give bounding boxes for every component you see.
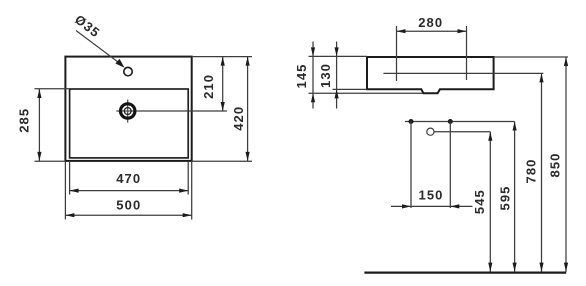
svg-text:470: 470 [116, 171, 141, 186]
extension line 285 top [35, 88, 70, 90]
dimension 285 [37, 89, 41, 161]
junction dot left [409, 119, 414, 124]
svg-text:280: 280 [418, 15, 443, 30]
dimension 850 [564, 57, 568, 272]
dimension 210 [221, 57, 225, 111]
extension lines 470 [70, 162, 189, 195]
dimension 470 [70, 189, 189, 193]
svg-text:285: 285 [16, 108, 31, 133]
dimension 150 [391, 204, 473, 208]
drain inner circle [124, 108, 131, 115]
junction dot right [448, 119, 453, 124]
plan view: outer rect 500x420 [65, 57, 191, 161]
svg-text:150: 150 [419, 188, 444, 203]
extension line top right [192, 56, 252, 58]
wall hole circle [427, 128, 434, 135]
fixing vertical left [410, 122, 412, 209]
svg-text:780: 780 [523, 159, 538, 184]
svg-text:850: 850 [548, 153, 563, 178]
side view rim line [384, 72, 544, 74]
faucet hole [124, 67, 132, 75]
drain crosshair [116, 100, 139, 123]
centerline from drain to 210 dim [139, 110, 227, 112]
level line 595 [405, 121, 515, 123]
dimension 780 [539, 73, 543, 271]
level line 545 [434, 131, 490, 133]
extension line bottom right [192, 160, 252, 162]
drain outer ring [121, 104, 135, 118]
extension line 850 top [494, 56, 568, 58]
extension line 130 bottom [333, 88, 368, 90]
svg-text:595: 595 [497, 186, 512, 211]
svg-text:420: 420 [231, 106, 246, 131]
fixing vertical right [449, 122, 451, 209]
floor line [364, 272, 566, 274]
dimension 500 [65, 213, 191, 217]
svg-text:145: 145 [294, 64, 309, 89]
extension line bottom left [35, 160, 66, 162]
extension lines 500 [65, 162, 191, 220]
extension lines 280 [397, 26, 467, 81]
dimension 420 [246, 57, 250, 161]
svg-text:130: 130 [318, 63, 333, 88]
leader line O35 [76, 31, 125, 68]
extension line depth top [309, 55, 368, 57]
extension line 145 bottom [309, 92, 423, 94]
plan view: inner bowl rect 470 [70, 89, 189, 158]
svg-text:545: 545 [472, 189, 487, 214]
dimension 145 [311, 42, 315, 109]
dimension 280 [397, 29, 467, 33]
dimension 130 [335, 42, 339, 109]
dimension 595 [513, 122, 517, 272]
side view body outline [367, 57, 494, 93]
svg-text:210: 210 [201, 74, 216, 99]
dimension 545 [488, 132, 492, 272]
svg-text:500: 500 [116, 198, 141, 213]
